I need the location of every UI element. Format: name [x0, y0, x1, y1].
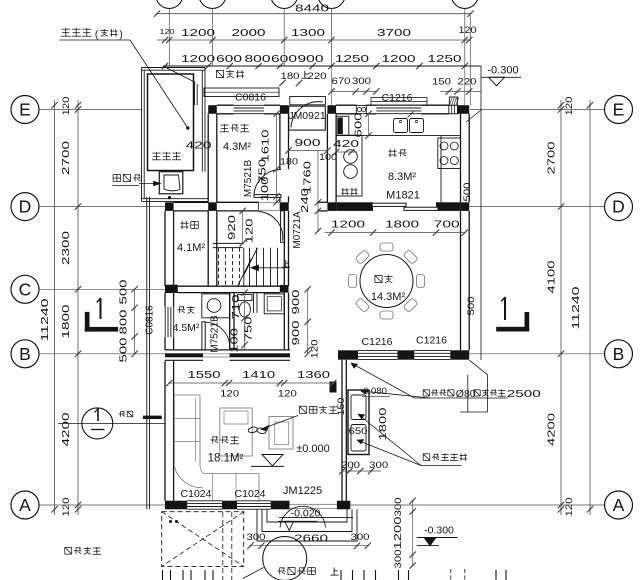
- svg-text:800: 800: [245, 53, 271, 65]
- section cut thick bar: [143, 416, 162, 419]
- svg-text:120: 120: [245, 218, 256, 244]
- shed position dashed rect with X: [162, 512, 244, 567]
- svg-text:120: 120: [278, 389, 297, 400]
- dims 1760 240 vertical at corridor: [300, 151, 321, 235]
- svg-text:1200: 1200: [382, 53, 416, 65]
- septic tank: [148, 74, 194, 171]
- door M7521B (farm room) with swing: [254, 170, 281, 198]
- svg-text:C0816: C0816: [145, 305, 156, 335]
- svg-text:100: 100: [260, 176, 271, 202]
- svg-text:150: 150: [336, 398, 346, 416]
- svg-text:JM1225: JM1225: [283, 485, 322, 497]
- right dimension chain lines: [558, 100, 593, 515]
- svg-text:1800: 1800: [60, 304, 72, 338]
- svg-text:600: 600: [216, 53, 242, 65]
- fan leader: [261, 416, 298, 431]
- wall: living room east wall: [342, 360, 346, 501]
- svg-text:E: E: [19, 100, 31, 120]
- svg-text:120: 120: [220, 389, 239, 400]
- svg-text:4.1M²: 4.1M²: [177, 242, 205, 254]
- svg-text:900: 900: [295, 137, 321, 149]
- west wall dims 500 800 500: [119, 279, 138, 363]
- svg-text:420: 420: [333, 138, 359, 150]
- shower/laundry tray: [264, 294, 284, 314]
- left grid lines: [40, 110, 166, 506]
- svg-text:2500: 2500: [507, 388, 541, 400]
- svg-text:1250: 1250: [335, 53, 369, 65]
- label 180 up 220 steps: [279, 71, 326, 86]
- svg-text:2700: 2700: [60, 141, 72, 175]
- window C1216 (dining south, west): [358, 350, 398, 359]
- svg-text:220: 220: [458, 77, 477, 88]
- svg-text:2000: 2000: [232, 27, 266, 39]
- door M0721A in D wall with swing: [259, 202, 285, 242]
- svg-text:1410: 1410: [242, 370, 276, 381]
- svg-text:M7521B: M7521B: [210, 315, 221, 353]
- toilet: [238, 295, 252, 318]
- svg-text:650: 650: [349, 426, 368, 437]
- svg-text:C1216: C1216: [362, 336, 393, 348]
- svg-text:1250: 1250: [428, 53, 462, 65]
- label C1024 C1024 JM1225: [181, 485, 323, 500]
- wall: west exterior wall (grid 1/c1): [165, 211, 174, 501]
- label sewage well + arrow: [112, 174, 160, 186]
- wall: dining west partition (stair/bath east): [284, 211, 288, 350]
- L sofa: [174, 395, 259, 501]
- svg-text:4.5M²: 4.5M²: [173, 322, 200, 334]
- svg-text:420: 420: [186, 140, 212, 152]
- top dimension row 2: 1200 600 800 600 900 1250 1200 1250: [162, 53, 481, 69]
- svg-text:100: 100: [230, 327, 241, 353]
- svg-text:-0.300: -0.300: [487, 65, 518, 77]
- svg-text:120: 120: [61, 97, 72, 116]
- svg-text:120: 120: [310, 340, 321, 359]
- svg-text:500: 500: [462, 183, 473, 202]
- window C1216 in E wall (kitchen): [371, 98, 427, 114]
- svg-text:900: 900: [291, 320, 302, 346]
- side yard wall (west): [147, 197, 150, 510]
- bath vanity counter: [202, 294, 230, 318]
- svg-text:3700: 3700: [377, 27, 411, 39]
- svg-text:11240: 11240: [570, 286, 582, 329]
- dining west dims 900 900 120: [291, 286, 321, 358]
- roof eave line east: [460, 66, 488, 412]
- column footprint marks bottom edge: [163, 570, 507, 580]
- section mark 1 left: [85, 298, 118, 332]
- top dimension row 1: 120 1200 2000 1300 3700 120: [157, 25, 477, 43]
- svg-text:600: 600: [354, 112, 365, 138]
- level -0.300 top right: [481, 65, 521, 86]
- AC outdoor unit 1: [351, 395, 366, 420]
- svg-text:±0.000: ±0.000: [296, 443, 330, 455]
- svg-text:D: D: [19, 197, 32, 217]
- svg-text:120: 120: [564, 498, 575, 517]
- svg-text:C0816: C0816: [235, 92, 266, 104]
- kitchen stove 4 burners: [438, 138, 461, 169]
- label washroom: [173, 306, 200, 334]
- window C0816 in west wall (bath): [165, 307, 174, 337]
- wall: grid B wall right with two C1216 windows: [338, 350, 469, 359]
- label up at entrance: [330, 568, 338, 576]
- svg-text:C1216: C1216: [382, 92, 413, 104]
- svg-text:300: 300: [352, 76, 371, 87]
- door JM0921 (yard entry to corridor): [289, 102, 326, 130]
- canopy dashed verticals: [223, 512, 465, 580]
- AC dims: [336, 386, 390, 474]
- sub-dims 670 300 kitchen window: [328, 76, 379, 95]
- right grid lines: [350, 110, 604, 506]
- svg-text:4200: 4200: [60, 412, 72, 446]
- svg-text:B: B: [19, 344, 31, 364]
- svg-text:14.3M²: 14.3M²: [371, 291, 406, 303]
- window C1216 (dining south, east): [414, 350, 450, 359]
- window C1024 (living south, east): [237, 501, 271, 509]
- svg-text:120: 120: [160, 27, 175, 36]
- svg-text:900: 900: [291, 289, 302, 315]
- kitchen chimney block: [336, 116, 349, 135]
- window C0816 in E wall: [234, 105, 264, 113]
- text UP at stairs: [285, 260, 287, 267]
- column at living NE (1360 end): [330, 382, 337, 393]
- label: AC hole text: [423, 388, 541, 400]
- left dimension chain lines: [51, 100, 81, 515]
- left dims 120 2700 2300 1800 4200 120: [39, 97, 72, 517]
- svg-text:1550: 1550: [188, 370, 222, 381]
- label fan position: [300, 405, 307, 407]
- farm room door dims 1610 750 100: [258, 111, 280, 206]
- corridor dim 900: [285, 137, 330, 154]
- wall: toilet partition: [230, 293, 234, 350]
- stair landing: [213, 243, 243, 247]
- bath dims 710 750 100: [230, 289, 255, 353]
- svg-text:120: 120: [564, 97, 575, 116]
- porch dots: [169, 520, 178, 523]
- kitchen sink: [394, 112, 424, 133]
- svg-text:M0721A: M0721A: [292, 211, 303, 249]
- right dims 120 2700 4100 4200 120: [547, 97, 583, 517]
- wall: grid B wall left (bath south), mostly solid: [165, 350, 290, 360]
- label apron: [119, 413, 125, 415]
- svg-text:1200: 1200: [331, 219, 365, 231]
- svg-text:120: 120: [459, 25, 477, 35]
- living room dim chain 1550 1410 1360: [166, 370, 336, 400]
- bath door threshold: [203, 353, 230, 355]
- porch slab edge: [279, 517, 353, 519]
- entrance dim 300 2660 300: [247, 532, 372, 549]
- svg-text:670: 670: [332, 76, 351, 87]
- svg-text:500: 500: [119, 279, 130, 305]
- svg-text:4100: 4100: [547, 260, 558, 294]
- svg-text:1800: 1800: [385, 219, 419, 231]
- sewage well box: [159, 172, 183, 194]
- label wood stove: [342, 188, 344, 195]
- svg-text:710: 710: [231, 294, 242, 320]
- svg-text:C1216: C1216: [416, 335, 447, 347]
- entrance steps: [257, 509, 357, 541]
- svg-text:2300: 2300: [60, 231, 72, 265]
- svg-text:300: 300: [351, 532, 370, 543]
- svg-text:300: 300: [393, 550, 404, 569]
- wall: grid D interior wall: [165, 202, 469, 211]
- svg-text:1610: 1610: [261, 129, 272, 163]
- svg-text:18.1M²: 18.1M²: [208, 453, 244, 465]
- AC outdoor unit 2: [351, 425, 366, 452]
- stair treads dashed: [219, 248, 240, 286]
- wall: grid A south exterior wall: [165, 501, 350, 510]
- svg-text:800: 800: [119, 309, 130, 335]
- dims 180 100 at corridor: [280, 152, 337, 167]
- yard north wall: [163, 65, 481, 67]
- window C1024 (living south, west): [187, 501, 222, 509]
- svg-text:11240: 11240: [39, 298, 51, 341]
- svg-text:240: 240: [300, 187, 311, 213]
- svg-text:-0.300: -0.300: [424, 525, 454, 537]
- dining table with 8 chairs: [349, 243, 425, 319]
- wall: east exterior wall (grid 5/c5): [461, 114, 470, 350]
- svg-text:M1821: M1821: [386, 190, 420, 202]
- label dining room: [371, 275, 406, 303]
- svg-text:180: 180: [280, 157, 298, 167]
- flue in E wall with hatch: [449, 97, 459, 114]
- AC niche: [348, 390, 369, 455]
- svg-text:750: 750: [244, 316, 255, 342]
- right entrance dim 300 1200 300: [393, 498, 416, 569]
- svg-text:2660: 2660: [294, 533, 328, 545]
- svg-text:920: 920: [227, 214, 238, 240]
- svg-text:M7521B: M7521B: [243, 160, 254, 198]
- svg-text:E: E: [613, 100, 625, 120]
- svg-text:1300: 1300: [291, 27, 325, 39]
- extension line right top: [469, 14, 471, 105]
- wall: north exterior wall (grid E): [208, 105, 469, 114]
- kitchen counter top: [336, 136, 460, 203]
- stair break line: [238, 248, 258, 286]
- label kitchen: [386, 149, 420, 202]
- joint dot: [168, 196, 171, 199]
- corridor entrance step: [290, 97, 326, 105]
- svg-text:2700: 2700: [547, 141, 558, 175]
- label: AC outdoor unit: [423, 453, 467, 460]
- right grid bubbles E D B A: [605, 96, 633, 520]
- AC outdoor unit leader + label: [357, 414, 462, 466]
- svg-text:1800: 1800: [378, 407, 389, 441]
- stair treads solid: [244, 248, 278, 286]
- svg-text:180: 180: [281, 71, 300, 82]
- svg-text:): ): [119, 30, 122, 41]
- left grid bubbles E D C B A: [11, 96, 39, 520]
- main entrance circle + label: [243, 537, 315, 580]
- svg-text:8.3M²: 8.3M²: [388, 171, 416, 183]
- coffee table: [220, 408, 252, 456]
- section mark 1 right: [496, 297, 529, 332]
- label C1216 C1216 dining windows: [362, 335, 448, 349]
- label living room: [208, 436, 244, 465]
- label farm tool room: [220, 124, 251, 153]
- svg-text:1200: 1200: [181, 27, 215, 39]
- svg-text:A: A: [19, 495, 31, 515]
- svg-text:JM0921: JM0921: [288, 110, 326, 122]
- svg-text:220: 220: [308, 71, 327, 82]
- label septic tank inner: [152, 152, 160, 154]
- svg-text:150: 150: [432, 77, 451, 88]
- wall: column-3 wall (farm room east) with door opening: [280, 114, 289, 203]
- stair up arrow: [251, 265, 288, 271]
- kitchen dims 600 420: [333, 111, 372, 156]
- wood stove bench with two pots: [336, 135, 362, 196]
- wall: grid C wall (bath north): [165, 285, 289, 293]
- sliding door M1821 in D wall (kitchen-dining): [372, 203, 438, 210]
- wall: column-2 wall (storeroom/stair west): [208, 114, 217, 286]
- label septic tank with leader: [60, 28, 190, 130]
- side table / tv bench: [269, 417, 293, 450]
- svg-text:C: C: [19, 279, 32, 299]
- svg-text:500: 500: [119, 337, 130, 363]
- svg-text:900: 900: [298, 53, 324, 65]
- D wall dim row 1200 1800 700: [325, 219, 468, 236]
- shower partition: [253, 293, 255, 313]
- level -0.300 bottom: [417, 525, 458, 546]
- svg-text:1200: 1200: [393, 516, 404, 550]
- yard NW diagonal wall: [163, 66, 197, 105]
- svg-text:300: 300: [393, 498, 404, 517]
- svg-text:D: D: [612, 197, 625, 217]
- svg-text:120: 120: [61, 498, 72, 517]
- svg-text:C1024: C1024: [235, 488, 266, 500]
- svg-text:8440: 8440: [295, 3, 329, 15]
- svg-text:A: A: [613, 495, 625, 515]
- vent box in E wall: [356, 105, 366, 113]
- svg-text:B: B: [613, 344, 625, 364]
- level +-0.000: [251, 443, 330, 466]
- detail circle 1 (apron): [58, 408, 165, 439]
- svg-text:C1024: C1024: [181, 488, 212, 500]
- svg-text:700: 700: [434, 219, 460, 231]
- door JM1225 in A wall, double outward swing: [280, 504, 337, 528]
- svg-text:1360: 1360: [297, 370, 331, 381]
- label storeroom: [177, 221, 205, 254]
- top grid bubbles 1-5 (cut off): [156, 0, 479, 105]
- svg-text:1200: 1200: [181, 53, 215, 65]
- C0816 exterior sill in yard: [204, 88, 279, 97]
- svg-text:4200: 4200: [547, 412, 558, 446]
- ceiling fan symbol: [248, 426, 267, 434]
- label shed position: [65, 546, 72, 548]
- door (M7521) bath entry in B wall: [202, 322, 230, 350]
- wall: column-4 wall (kitchen west): [327, 114, 336, 203]
- label sundry yard: [216, 69, 223, 71]
- AC hole leader + label: [351, 363, 508, 398]
- svg-text:300: 300: [247, 532, 266, 543]
- svg-text:Ø80: Ø80: [456, 388, 476, 400]
- septic tank enclosure: [142, 68, 209, 202]
- dim 920 stair landing: [227, 208, 256, 247]
- svg-text:500: 500: [466, 297, 477, 316]
- sub-dims 150 220 flue: [432, 77, 481, 95]
- top overall dimension 8440: [154, 3, 474, 17]
- svg-text:4.3M²: 4.3M²: [223, 141, 251, 153]
